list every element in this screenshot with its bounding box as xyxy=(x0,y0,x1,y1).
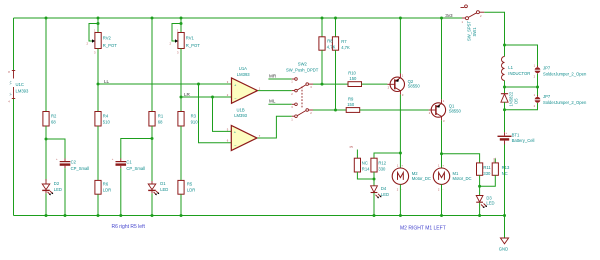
svg-text:U1B: U1B xyxy=(237,107,245,112)
LED D2 labels xyxy=(54,181,62,192)
svg-text:GND: GND xyxy=(499,246,508,251)
switch SW2 pole 2 lever xyxy=(297,111,306,116)
junction C1 at GND bus xyxy=(119,214,122,217)
wire branch to jumper JP2 xyxy=(505,45,538,67)
svg-text:3: 3 xyxy=(310,85,312,89)
transistor Q2 S8550 xyxy=(387,73,404,97)
wire M1 bottom to GND bus xyxy=(441,184,443,215)
wire R13 bottom to D3 node xyxy=(480,175,496,186)
junction LL branch to U1B pin 6 xyxy=(197,83,200,86)
junction battery at GND bus xyxy=(503,214,506,217)
svg-text:ML: ML xyxy=(269,99,276,104)
svg-text:2: 2 xyxy=(310,111,312,115)
wire RV1 wiper loop xyxy=(172,24,181,42)
resistor R8 xyxy=(319,37,325,50)
wire SW2 pole2 common to R9 xyxy=(313,109,346,111)
battery BT1 Battery_Cell xyxy=(498,132,512,145)
svg-text:68: 68 xyxy=(158,120,163,125)
svg-text:1: 1 xyxy=(462,20,464,24)
resistor R3 labels 910 xyxy=(191,114,199,125)
wire R11 bottom to D3 node xyxy=(479,175,481,195)
wire diode node horizontal xyxy=(505,86,538,88)
svg-text:4,7K: 4,7K xyxy=(341,45,350,50)
svg-text:R12: R12 xyxy=(378,160,386,165)
junction R11/R13/D3 xyxy=(478,185,481,188)
svg-text:R5: R5 xyxy=(187,182,193,187)
svg-text:330: 330 xyxy=(378,167,386,172)
svg-text:U1A: U1A xyxy=(239,66,247,71)
resistor R4 labels 510 xyxy=(103,114,111,125)
junction D1 at GND bus xyxy=(151,214,154,217)
wire branch to C1 xyxy=(121,139,152,162)
svg-text:1: 1 xyxy=(438,163,440,167)
solder jumper JP2 pads xyxy=(534,64,541,79)
svg-text:V-: V- xyxy=(9,93,13,96)
ground symbol xyxy=(500,238,508,244)
op-amp U1A value label LM393 xyxy=(237,72,250,77)
svg-text:4: 4 xyxy=(8,100,10,104)
svg-text:D1: D1 xyxy=(160,181,166,186)
wire R6 to GND bus xyxy=(97,194,99,215)
capacitor C1 polarized plates xyxy=(112,158,126,164)
svg-text:1: 1 xyxy=(402,73,404,77)
svg-text:7: 7 xyxy=(259,134,261,138)
svg-text:JP7: JP7 xyxy=(543,94,551,99)
net label 3v3 xyxy=(445,13,453,18)
LED D1 labels xyxy=(160,181,168,192)
pin label P5 xyxy=(350,145,354,149)
capacitor C1 labels CP_Small xyxy=(126,160,145,171)
wire R14 bottom to D4 node xyxy=(357,172,374,179)
svg-text:2: 2 xyxy=(291,92,293,96)
wire L1 bottom to diode node xyxy=(504,81,506,94)
junction right rail / jumper JP2 branch xyxy=(503,44,506,47)
wire net LR to op-amp U1A pin 2 xyxy=(181,96,231,98)
svg-text:2: 2 xyxy=(397,188,399,192)
svg-text:LDR: LDR xyxy=(187,188,195,193)
svg-text:5: 5 xyxy=(227,127,229,131)
switch SW1 labels vertical SW_SPST SW1 xyxy=(466,21,477,41)
wire GND stub xyxy=(504,216,506,239)
resistor R10 xyxy=(348,82,362,87)
svg-text:D5: D5 xyxy=(513,98,518,104)
resistor R1 labels 68 xyxy=(158,114,164,125)
svg-text:R4: R4 xyxy=(103,114,109,119)
wire JP7 bottom stub to rail xyxy=(505,103,538,110)
op-amp power unit U1C pin 8 V+ xyxy=(8,70,15,85)
svg-text:2: 2 xyxy=(388,86,390,90)
resistor R13 xyxy=(492,163,498,175)
junction Q2 collector / M2 / R12 xyxy=(399,152,402,155)
resistor R7 xyxy=(332,37,338,50)
motor M1 labels Motor_DC xyxy=(453,171,472,181)
junction Q1 collector / M1 / R11 xyxy=(440,152,443,155)
svg-text:2: 2 xyxy=(227,93,229,97)
svg-text:R6 right R5 left: R6 right R5 left xyxy=(112,224,146,230)
svg-text:1: 1 xyxy=(177,29,179,33)
svg-text:150: 150 xyxy=(349,76,357,81)
wire R7 from bus xyxy=(335,18,337,37)
svg-text:2: 2 xyxy=(534,75,536,79)
wire D3 to GND bus xyxy=(479,203,481,216)
switch SW1 SW_SPST xyxy=(461,5,485,24)
svg-text:R6: R6 xyxy=(103,182,109,187)
pin number 7 U1B xyxy=(259,134,261,138)
solder jumper JP7 pads xyxy=(534,93,541,108)
svg-text:4,7K: 4,7K xyxy=(327,44,336,49)
wire RV1 bottom to LR node xyxy=(180,49,182,112)
svg-text:R14: R14 xyxy=(362,167,370,172)
svg-text:1: 1 xyxy=(397,163,399,167)
junction L1 bottom / JP2 xyxy=(503,86,506,89)
svg-text:SolderJumper_2_Open: SolderJumper_2_Open xyxy=(543,100,587,105)
svg-text:2: 2 xyxy=(87,42,89,46)
svg-text:CP_Small: CP_Small xyxy=(126,166,145,171)
svg-text:V+: V+ xyxy=(9,80,13,84)
svg-text:R2: R2 xyxy=(51,114,57,119)
wire R9 to Q1 base xyxy=(360,109,429,111)
svg-text:R3: R3 xyxy=(191,114,197,119)
svg-text:R10: R10 xyxy=(348,71,356,76)
svg-text:R7: R7 xyxy=(341,39,347,44)
pin number 2 U1A xyxy=(227,93,229,97)
wire R8 from bus xyxy=(321,18,323,37)
junction node R1/C1 xyxy=(151,137,154,140)
photoresistor R6 LDR xyxy=(95,180,101,194)
svg-text:R9: R9 xyxy=(348,97,354,102)
wire LL node down to U1B pin 6 xyxy=(199,84,232,143)
svg-text:-: - xyxy=(443,189,444,192)
wire C1 bottom to GND bus xyxy=(120,166,122,216)
svg-text:LDR: LDR xyxy=(103,188,111,193)
svg-text:910: 910 xyxy=(191,120,199,125)
capacitor C2 polarized plates xyxy=(56,158,70,164)
wire battery bottom to GND bus xyxy=(504,145,506,216)
wire Q2 collector down to M2 node xyxy=(399,95,401,168)
svg-text:P5: P5 xyxy=(350,145,354,149)
resistor R12 xyxy=(371,158,377,172)
switch SW2 pole 2 throw B terminal xyxy=(291,115,297,122)
svg-text:2: 2 xyxy=(480,14,482,18)
svg-text:D2: D2 xyxy=(54,181,60,186)
svg-text:LL: LL xyxy=(104,79,110,84)
svg-text:CP_Small: CP_Small xyxy=(71,166,90,171)
svg-text:3v3: 3v3 xyxy=(445,13,453,18)
svg-text:RV2: RV2 xyxy=(103,36,112,41)
inductor L1 xyxy=(502,45,505,81)
junction top bus at R8 column xyxy=(321,17,324,20)
wire R12 bottom to D4 xyxy=(373,172,375,186)
junction M2 at GND bus xyxy=(399,214,402,217)
svg-text:Motor_DC: Motor_DC xyxy=(453,176,472,181)
pin number 1 U1A xyxy=(259,87,261,91)
wire Q2 emitter to VCC bus xyxy=(399,18,401,74)
svg-text:R11: R11 xyxy=(483,165,491,170)
wire R8 bottom to pole1 common xyxy=(321,50,323,84)
svg-text:BT1: BT1 xyxy=(512,133,520,138)
resistor R4 xyxy=(95,112,101,127)
switch SW2 pole 2 throw A terminal xyxy=(291,103,297,109)
potentiometer RV1 R_POT xyxy=(170,29,185,55)
svg-text:2: 2 xyxy=(534,104,536,108)
inductor L1 labels INDUCTOR xyxy=(508,65,530,76)
op-amp U1A LM393 xyxy=(232,78,258,103)
transistor Q2 labels S8550 xyxy=(408,79,421,89)
wire Q1 emitter to VCC bus xyxy=(441,18,443,99)
svg-text:3: 3 xyxy=(227,80,229,84)
motor M1 Motor_DC xyxy=(433,163,449,191)
LED D4 xyxy=(371,186,382,199)
wire R2 bottom to LED D2 xyxy=(45,126,47,181)
wire M2 bottom to GND bus xyxy=(399,184,401,215)
resistor R13 labels NC xyxy=(502,165,510,176)
wire jumper JP7 branch xyxy=(537,87,539,97)
junction D5 bottom / JP7 return xyxy=(503,108,506,111)
svg-text:D4: D4 xyxy=(381,186,387,191)
junction node LR xyxy=(180,96,183,99)
potentiometer RV2 R_POT xyxy=(87,29,102,55)
wire branch to R11 xyxy=(442,154,480,163)
svg-text:C1: C1 xyxy=(126,160,132,165)
svg-text:M2 RIGHT M1 LEFT: M2 RIGHT M1 LEFT xyxy=(400,226,446,232)
svg-text:150: 150 xyxy=(347,102,355,107)
net label LR xyxy=(184,92,191,97)
wire branch to R12 xyxy=(374,153,400,158)
svg-text:SW_SPST: SW_SPST xyxy=(466,21,471,41)
resistor R11 xyxy=(477,163,483,175)
resistor R1 xyxy=(149,112,155,127)
motor M2 labels Motor_DC xyxy=(412,171,431,181)
junction top bus at RV1 column xyxy=(180,17,183,20)
wire Q1 collector down to M1 node xyxy=(441,120,443,168)
photoresistor R5 labels LDR xyxy=(187,182,195,193)
svg-text:P11: P11 xyxy=(493,157,497,162)
net label MR xyxy=(269,73,277,78)
svg-text:LED: LED xyxy=(486,201,494,206)
svg-text:-: - xyxy=(401,189,402,192)
text note R6 right R5 left xyxy=(112,224,146,230)
diode D5 1N5822 xyxy=(501,94,508,103)
junction R8 at pole1 common xyxy=(321,83,324,86)
photoresistor R6 labels LDR xyxy=(103,182,111,193)
wire R1 bottom to LED D1 xyxy=(151,126,153,181)
op-amp U1B LM393 xyxy=(231,125,257,150)
wire R3 bottom to LDR R5 xyxy=(180,126,182,180)
svg-text:3: 3 xyxy=(402,93,404,97)
svg-text:+: + xyxy=(401,164,403,167)
junction RV2 wiper loop xyxy=(97,22,100,25)
wire RV2 top pin from bus xyxy=(97,18,99,33)
wire net ML stub to SW2 xyxy=(268,103,291,105)
svg-text:NC: NC xyxy=(362,160,368,165)
junction R14/R12/D4 xyxy=(373,178,376,181)
op-amp U1C reference label xyxy=(16,82,24,87)
svg-text:+: + xyxy=(443,164,445,167)
svg-text:R13: R13 xyxy=(502,165,510,170)
wire RV2 bottom to LL node xyxy=(97,49,99,112)
wire R13 top stub xyxy=(494,159,496,163)
svg-text:LED: LED xyxy=(54,187,62,192)
ground label GND xyxy=(499,246,508,251)
svg-text:3: 3 xyxy=(291,105,293,109)
svg-text:510: 510 xyxy=(103,120,111,125)
wire R14 top stub xyxy=(356,150,358,159)
svg-text:R_POT: R_POT xyxy=(103,43,117,48)
svg-text:LM393: LM393 xyxy=(16,88,29,93)
svg-text:LED: LED xyxy=(160,187,168,192)
svg-text:1: 1 xyxy=(259,87,261,91)
wire R2 column from bus xyxy=(45,18,47,112)
junction R6 at GND bus xyxy=(97,214,100,217)
svg-text:R1: R1 xyxy=(158,114,164,119)
junction D3 at GND bus xyxy=(478,214,481,217)
svg-text:1: 1 xyxy=(534,93,536,97)
text note M2 RIGHT M1 LEFT xyxy=(400,226,446,232)
svg-text:U1C: U1C xyxy=(16,82,24,87)
resistor R9 labels 150 xyxy=(347,97,355,107)
svg-text:1: 1 xyxy=(94,29,96,33)
potentiometer RV1 labels R_POT xyxy=(186,36,200,48)
LED D2 xyxy=(42,181,53,195)
net label ML xyxy=(269,99,276,104)
svg-text:+: + xyxy=(112,158,114,161)
wire left power rail upper xyxy=(13,18,15,70)
wire R5 to GND bus xyxy=(180,194,182,215)
svg-text:SW2: SW2 xyxy=(298,61,308,66)
svg-text:MR: MR xyxy=(269,73,277,78)
switch SW2 pole 1 throw A terminal xyxy=(291,78,297,84)
LED D1 xyxy=(148,181,159,195)
wire R7 bottom to pole2 common xyxy=(335,50,337,110)
svg-text:LM393: LM393 xyxy=(234,113,247,118)
svg-text:INDUCTOR: INDUCTOR xyxy=(508,71,530,76)
op-amp U1B reference label xyxy=(237,107,245,112)
svg-text:S8550: S8550 xyxy=(449,108,462,113)
LED D3 labels xyxy=(486,196,494,206)
wire top VCC bus xyxy=(14,17,463,19)
junction R5 at GND bus xyxy=(180,214,183,217)
junction top bus at R2 column xyxy=(45,17,48,20)
resistor R10 labels 150 xyxy=(348,71,357,82)
junction D2 at GND bus xyxy=(45,214,48,217)
op-amp U1A reference label xyxy=(239,66,247,71)
pin number 5 U1B xyxy=(227,127,229,131)
svg-text:330: 330 xyxy=(483,171,491,176)
junction top bus at R1 column xyxy=(151,17,154,20)
svg-text:Motor_DC: Motor_DC xyxy=(412,176,431,181)
svg-text:JP7: JP7 xyxy=(543,66,551,71)
resistor R2 labels 68 xyxy=(51,114,57,125)
junction LR branch to U1B pin 5 xyxy=(211,96,214,99)
junction M1 at GND bus xyxy=(440,214,443,217)
resistor R14 labels NC xyxy=(362,160,370,171)
switch SW2 reference label xyxy=(298,61,308,66)
svg-text:C2: C2 xyxy=(71,160,77,165)
svg-text:3: 3 xyxy=(94,51,96,55)
svg-text:2: 2 xyxy=(170,42,172,46)
wire JP2 bottom stub xyxy=(537,74,539,87)
resistor R9 xyxy=(346,108,360,113)
resistor R7 labels 4,7K xyxy=(341,39,350,50)
svg-text:8: 8 xyxy=(8,70,10,74)
svg-text:2: 2 xyxy=(429,111,431,115)
potentiometer RV2 labels R_POT xyxy=(103,36,117,48)
junction top bus at R7 column xyxy=(334,17,337,20)
svg-text:1: 1 xyxy=(291,118,293,122)
svg-text:SolderJumper_2_Open: SolderJumper_2_Open xyxy=(543,71,587,76)
svg-text:1: 1 xyxy=(443,99,445,103)
svg-text:LED: LED xyxy=(381,192,389,197)
switch SW2 pole 1 common terminal xyxy=(306,83,313,89)
wire LR node down to U1B pin 5 xyxy=(213,97,232,131)
junction C2 at GND bus xyxy=(64,214,67,217)
wire net MR stub to SW2 xyxy=(268,78,291,80)
junction node R2/C2 xyxy=(45,138,48,141)
wire branch to C2 xyxy=(46,139,65,161)
pin label P11 vertical xyxy=(493,157,497,162)
junction top bus at Q2 emitter xyxy=(399,17,402,20)
photoresistor R5 LDR xyxy=(178,180,184,194)
svg-text:R_POT: R_POT xyxy=(186,43,200,48)
svg-text:Battery_Cell: Battery_Cell xyxy=(512,138,535,143)
svg-text:S8550: S8550 xyxy=(408,84,421,89)
svg-text:68: 68 xyxy=(51,120,56,125)
capacitor C2 labels CP_Small xyxy=(71,160,90,171)
solder jumper JP2 labels SolderJumper_2_Open xyxy=(543,66,587,77)
transistor Q1 labels S8550 xyxy=(449,104,462,114)
resistor R3 xyxy=(178,112,184,127)
resistor R14 xyxy=(354,158,360,172)
wire U1A output pin 1 to SW2 xyxy=(258,90,292,92)
junction node LL xyxy=(97,83,100,86)
junction JP2 at diode node xyxy=(536,86,539,89)
pin number 6 U1B xyxy=(227,139,229,143)
diode D5 labels vertical 1N5822 xyxy=(508,91,518,106)
junction D4 at GND bus xyxy=(373,214,376,217)
svg-text:3: 3 xyxy=(443,119,445,123)
resistor R2 xyxy=(43,112,49,127)
resistor R8 labels 4,7K xyxy=(327,39,336,50)
transistor Q1 S8550 xyxy=(429,99,446,123)
wire bottom GND bus xyxy=(14,215,505,217)
wire R10 to Q2 base xyxy=(362,83,388,85)
switch SW2 mechanical link dashed xyxy=(301,87,303,109)
svg-text:+: + xyxy=(506,132,508,135)
solder jumper JP7 labels SolderJumper_2_Open xyxy=(543,94,587,105)
svg-text:LM393: LM393 xyxy=(237,72,250,77)
motor M2 Motor_DC xyxy=(392,163,408,191)
wire R4 bottom to LDR R6 xyxy=(97,126,99,180)
switch SW2 pole 1 lever xyxy=(297,85,306,90)
svg-text:R8: R8 xyxy=(327,39,333,44)
junction RV1 wiper loop xyxy=(180,22,183,25)
svg-text:LR: LR xyxy=(184,92,191,97)
wire RV1 top pin from bus xyxy=(180,18,182,33)
svg-text:3: 3 xyxy=(177,51,179,55)
wire C2 bottom to GND bus xyxy=(64,166,66,216)
wire D1 to GND bus xyxy=(151,193,153,215)
svg-text:6: 6 xyxy=(227,139,229,143)
op-amp U1B value label LM393 xyxy=(234,113,247,118)
junction top bus at Q1 emitter xyxy=(440,17,443,20)
svg-text:L1: L1 xyxy=(508,65,513,70)
svg-text:1: 1 xyxy=(534,64,536,68)
wire net LL to op-amp U1A pin 3 xyxy=(98,83,231,85)
wire SW2 pole1 common to R10 xyxy=(313,83,348,85)
resistor R11 labels 330 xyxy=(483,165,491,176)
svg-text:SW_Push_DPDT: SW_Push_DPDT xyxy=(286,67,319,72)
svg-text:+: + xyxy=(56,158,58,161)
